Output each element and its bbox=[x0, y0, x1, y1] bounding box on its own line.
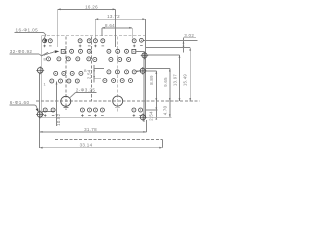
pin hole row B right #2 (dia0.92) bbox=[116, 49, 120, 53]
leader 16-dia1.05 bbox=[43, 32, 46, 40]
arrow 13.97 bottom bbox=[179, 98, 181, 101]
svg-text:2.54: 2.54 bbox=[148, 111, 153, 121]
arrow 10.82 top bbox=[56, 82, 58, 85]
pin hole row A #7 (dia1.05) bbox=[132, 39, 136, 43]
pin hole row D left #2 (dia0.92) bbox=[62, 71, 66, 75]
arrow 8.89 bottom bbox=[155, 98, 157, 101]
dim line 31.78 bbox=[40, 131, 147, 133]
ref line 2.54 inner top bbox=[94, 68, 104, 70]
arrow 16.26 right bbox=[113, 8, 116, 10]
dim line 13.72 bbox=[95, 18, 145, 20]
pin hole row E right #3 (dia0.92) bbox=[120, 79, 124, 83]
dim line 2.54 inner bbox=[93, 65, 95, 83]
svg-text:13.72: 13.72 bbox=[107, 14, 120, 19]
square pad row B left start (pin B1) bbox=[61, 49, 65, 53]
arrow 13.97 top bbox=[179, 55, 181, 58]
polarity mark row G #3 bbox=[81, 114, 84, 117]
polarity mark row G #1 bbox=[44, 114, 47, 117]
leader filled arrow 16-dia1.05 bbox=[44, 39, 47, 44]
pin hole row E right #4 (dia0.92) bbox=[129, 79, 133, 83]
svg-text:32-Φ0.92: 32-Φ0.92 bbox=[10, 49, 33, 54]
ref line y=117.2 bottom edge extension bbox=[145, 116, 171, 118]
arrow 2.54 inner bottom bbox=[93, 76, 95, 79]
polarity mark row A #7 bbox=[133, 45, 136, 48]
arrow 33.14 left bbox=[40, 147, 43, 149]
part outline top edge (phantom/dashed) bbox=[42, 35, 147, 37]
pin hole row A #6 (dia1.05) bbox=[101, 39, 105, 43]
stub line from square pad to side hole bbox=[136, 50, 144, 52]
arrow 2.54 bottom (outside, pointing up) bbox=[155, 117, 157, 119]
pin hole row D left #3 (dia0.92) bbox=[70, 71, 74, 75]
arrow 8.64 right bbox=[129, 27, 132, 29]
arrow 9.65 bottom bbox=[169, 98, 171, 101]
arrow 13.72 left bbox=[95, 18, 98, 20]
pin hole row B left #1 (dia0.92) bbox=[70, 49, 74, 53]
pin hole row C right #2 (dia0.92) bbox=[109, 58, 113, 62]
pin hole row E left #3 (dia0.92) bbox=[67, 79, 71, 83]
ref line 2.54 inner bottom bbox=[94, 78, 101, 80]
stub from row D right end to side mounting hole bbox=[136, 70, 140, 73]
part outline bottom edge bbox=[41, 116, 145, 118]
pin hole row E left #4 (dia0.92) bbox=[75, 79, 79, 83]
part outline right edge bbox=[144, 36, 146, 118]
arrow 8.64 left bbox=[102, 27, 105, 29]
pin hole row A #1 (dia1.05) bbox=[43, 39, 47, 43]
polarity mark row G #5 bbox=[94, 114, 97, 117]
dim line 33.14 bbox=[40, 147, 163, 149]
svg-text:2-Φ3.25: 2-Φ3.25 bbox=[76, 88, 96, 93]
guide hole A dia 3.25 bbox=[61, 96, 71, 106]
arrow 10.82 bottom bbox=[56, 114, 58, 117]
pin hole row A #5 (dia1.05) bbox=[93, 39, 97, 43]
underline 6-dia1.60 bbox=[10, 104, 35, 106]
pin hole row G #2 (dia1.05) bbox=[51, 108, 55, 112]
arrow 2.54 top (outside, pointing down) bbox=[155, 107, 157, 109]
guide hole B dia 3.25 bbox=[113, 96, 123, 106]
svg-text:1: 1 bbox=[43, 82, 45, 86]
pin hole row G #8 (dia1.05) bbox=[139, 108, 143, 112]
svg-text:6-Φ1.60: 6-Φ1.60 bbox=[10, 100, 30, 105]
pin hole row E right #2 (dia0.92) bbox=[112, 79, 116, 83]
left extension line (to 31.78/33.14 dims) bbox=[39, 73, 41, 148]
dim line 3.02 vertical bbox=[183, 38, 185, 53]
pin hole row G #1 (dia1.05) bbox=[43, 108, 47, 112]
square pad row B right end bbox=[132, 49, 136, 53]
leader tail 32-dia0.92 bbox=[42, 52, 55, 56]
arrow 33.14 right bbox=[159, 147, 162, 149]
horizontal centerline through guide holes bbox=[36, 100, 200, 102]
ext line 31.78 right bbox=[145, 120, 147, 132]
svg-text:2.54: 2.54 bbox=[86, 69, 91, 79]
svg-text:3.02: 3.02 bbox=[184, 33, 194, 38]
corner hole top-right bbox=[140, 38, 144, 42]
part outline left edge bbox=[40, 36, 42, 118]
dim line 10.82 bbox=[56, 82, 58, 127]
pin hole row B right #1 (dia0.92) bbox=[107, 49, 111, 53]
polarity mark row A #4 bbox=[88, 45, 91, 47]
arrow 16.26 left bbox=[58, 8, 61, 10]
svg-text:31.78: 31.78 bbox=[84, 127, 97, 132]
pin hole row G #3 (dia1.05) bbox=[80, 108, 84, 112]
svg-text:B: B bbox=[84, 69, 87, 73]
mounting hole dia1.60 right-upper bbox=[141, 52, 149, 60]
dim line 13.97 bbox=[179, 55, 181, 101]
ext line 33.14 right bbox=[161, 139, 163, 147]
pin hole row A #4 (dia1.05) bbox=[87, 39, 91, 43]
arrow 9.65 top bbox=[169, 69, 171, 72]
pin hole row G #6 (dia1.05) bbox=[100, 108, 104, 112]
polarity mark row G #8 bbox=[139, 115, 142, 117]
ext line 8.64 right bbox=[131, 28, 133, 39]
pin hole row G #4 (dia1.05) bbox=[88, 108, 92, 112]
vertical centerline part center bbox=[91, 37, 93, 102]
pin hole row D left #1 (dia0.92) bbox=[54, 71, 58, 75]
svg-text:4.70: 4.70 bbox=[163, 105, 168, 115]
svg-text:8.64: 8.64 bbox=[105, 23, 115, 28]
svg-text:16.26: 16.26 bbox=[85, 4, 98, 9]
svg-text:13.97: 13.97 bbox=[173, 74, 178, 87]
crossbar tick centerline B bbox=[115, 106, 120, 108]
vertical centerline guide hole A bbox=[65, 37, 67, 111]
leader filled arrow 32-dia0.92 bbox=[55, 50, 60, 53]
polarity mark row A #6 bbox=[102, 45, 105, 47]
polarity mark row G #4 bbox=[88, 115, 91, 117]
pin hole row C left #1 (dia0.92) bbox=[47, 57, 51, 61]
leader filled arrow 6-dia1.60 bbox=[36, 108, 39, 112]
ref line y=109.8 bottom hole row bbox=[146, 109, 158, 111]
leader 32-dia0.92 bbox=[39, 52, 48, 56]
pin hole row D left #4 (dia0.92) bbox=[79, 71, 83, 75]
ref line y=71 through side hole (8.89) bbox=[136, 70, 157, 72]
dim line 8.64 bbox=[102, 27, 132, 29]
arrow 31.78 right bbox=[143, 131, 146, 133]
polarity mark row G #7 bbox=[133, 114, 136, 117]
arrow 15.49 top bbox=[189, 48, 191, 51]
pin hole row B right #3 (dia0.92) bbox=[125, 49, 129, 53]
crossbar tick centerline A bbox=[63, 107, 68, 109]
pin hole row C left #2 (dia0.92) bbox=[57, 57, 61, 61]
arrow 2.54 inner top bbox=[93, 69, 95, 72]
mounting hole dia1.60 bottom-left bbox=[36, 110, 44, 118]
pin hole row E left #1 (dia0.92) bbox=[50, 79, 54, 83]
mounting hole dia1.60 right-mid bbox=[139, 67, 147, 75]
polarity mark row A #3 bbox=[79, 45, 82, 48]
pin hole row A #2 (dia1.05) bbox=[48, 39, 52, 43]
arrow 3.02 upper bbox=[183, 41, 185, 44]
vertical centerline guide hole B bbox=[117, 37, 119, 112]
pin hole row A #3 (dia1.05) bbox=[78, 39, 82, 43]
underline 32-dia0.92 bbox=[10, 53, 40, 55]
pin hole row B left #2 (dia0.92) bbox=[79, 49, 83, 53]
pin hole row E left #2 (dia0.92) bbox=[59, 79, 63, 83]
pin hole row D right #4 (dia0.92) bbox=[132, 70, 136, 74]
arrow 3.02 lower bbox=[183, 46, 185, 49]
polarity mark row A #1 bbox=[43, 45, 46, 48]
svg-text:15.49: 15.49 bbox=[183, 74, 188, 87]
dim line 8.89 + 2.54 shared bbox=[155, 71, 157, 117]
pin hole row D right #2 (dia0.92) bbox=[115, 70, 119, 74]
short ledge line bottom-left bbox=[42, 111, 55, 113]
svg-text:16-Φ1.05: 16-Φ1.05 bbox=[16, 27, 39, 32]
arrow 31.78 left bbox=[40, 131, 43, 133]
svg-text:B: B bbox=[43, 57, 46, 61]
pin hole row C right #4 (dia0.92) bbox=[127, 58, 131, 62]
dim line 15.49 bbox=[189, 48, 191, 102]
ref line y=47.6 (15.49) bbox=[146, 47, 190, 49]
mounting hole dia1.60 mid-left bbox=[36, 66, 44, 74]
vertical centerline top-right corner hole bbox=[144, 37, 146, 48]
ext line 16.26 left bbox=[57, 9, 59, 47]
pin hole row C right #1 (dia0.92) bbox=[93, 58, 97, 62]
svg-text:9.65: 9.65 bbox=[163, 77, 168, 87]
underline 16-dia1.05 bbox=[15, 31, 44, 33]
ext line 16.26 right bbox=[115, 9, 117, 47]
ext line 8.64 left bbox=[101, 28, 103, 36]
svg-text:33.14: 33.14 bbox=[80, 143, 93, 148]
arrow 4.70 bottom bbox=[169, 114, 171, 117]
mounting hole dia1.60 bottom-right bbox=[139, 114, 147, 122]
arrow 13.72 right bbox=[142, 18, 145, 20]
pin hole row G #5 (dia1.05) bbox=[93, 108, 97, 112]
underline 3.02 bbox=[183, 37, 196, 39]
leader 6-dia1.60 bbox=[35, 105, 38, 110]
horizontal phantom line below part bbox=[55, 138, 162, 140]
pin hole row C left #3 (dia0.92) bbox=[66, 57, 70, 61]
pin hole row B left #3 (dia0.92) bbox=[87, 49, 91, 53]
polarity mark row A #5 bbox=[94, 45, 97, 48]
inner right edge line bbox=[143, 53, 145, 122]
polarity mark row G #2 bbox=[52, 115, 55, 117]
pin hole row C left #5 (dia0.92) bbox=[87, 57, 91, 61]
pin hole row C right #3 (dia0.92) bbox=[118, 58, 122, 62]
arrow 15.49 bottom bbox=[189, 98, 191, 101]
pin hole row G #7 (dia1.05) bbox=[132, 108, 136, 112]
dim line 16.26 bbox=[58, 8, 116, 10]
polarity mark row G #6 bbox=[101, 115, 104, 117]
ext line 13.72 right bbox=[144, 19, 146, 36]
polarity mark corner top-right bbox=[140, 45, 143, 47]
pin hole row C left #4 (dia0.92) bbox=[76, 57, 80, 61]
svg-text:8.89: 8.89 bbox=[149, 75, 154, 85]
pin hole row D right #1 (dia0.92) bbox=[107, 70, 111, 74]
ref line y=54.9 (13.97) bbox=[147, 54, 179, 56]
polarity mark row A #2 bbox=[49, 45, 52, 47]
dim line 9.65 + 4.70 shared bbox=[169, 69, 171, 118]
ref line y=68.5 (9.65) bbox=[146, 68, 170, 70]
underline 2-dia3.25 bbox=[76, 92, 97, 94]
pin hole row E right #1 (dia0.92) bbox=[103, 79, 107, 83]
reference line from top-right corner hole bbox=[144, 39, 198, 41]
leader 2-dia3.25 bbox=[70, 93, 76, 98]
pin hole row D right #3 (dia0.92) bbox=[125, 70, 129, 74]
ext line 13.72 left bbox=[94, 19, 96, 38]
arrow 8.89 top bbox=[155, 71, 157, 74]
